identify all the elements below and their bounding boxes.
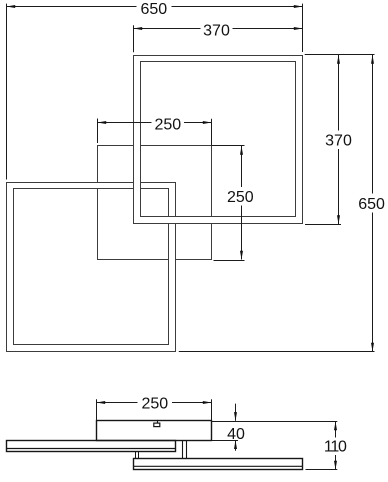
- arrowheads (side): [97, 401, 338, 470]
- ext 370v bottom: [305, 224, 341, 226]
- bottom-left square 370mm band white fill (breaks lines beneath): [7, 183, 176, 352]
- arrow 250h right: [203, 121, 212, 124]
- arrow 650v up: [371, 55, 374, 64]
- extension lines (side): [97, 399, 338, 469]
- svg-text:370: 370: [325, 133, 352, 150]
- strut A between upper and lower bars: [135, 452, 137, 459]
- middle square 250mm (plan view, bottom layer): [98, 146, 212, 260]
- ext 250v bottom: [214, 260, 245, 262]
- arrow 250v down: [240, 251, 243, 260]
- arrow 370v up: [337, 55, 340, 64]
- bottom-left square 370mm outer: [7, 183, 176, 352]
- canopy notch tick: [157, 420, 159, 423]
- canopy notch detail: [154, 423, 160, 427]
- upper bar (370 frame, side view): [7, 441, 176, 452]
- arrow 110 up: [334, 422, 337, 431]
- arrow 250s right: [203, 401, 212, 404]
- svg-text:370: 370: [203, 23, 230, 40]
- arrow 650 left: [7, 5, 16, 8]
- arrow 370v down: [337, 215, 340, 224]
- arrow 250s left: [97, 401, 106, 404]
- arrow 250h left: [98, 121, 107, 124]
- svg-text:650: 650: [140, 1, 167, 18]
- arrow 110 down: [334, 461, 337, 470]
- arrow 650 right: [294, 5, 303, 8]
- top-right square 370mm inner: [141, 62, 296, 217]
- ext 370v/650v top: [305, 54, 375, 56]
- dim line 110: [335, 422, 337, 470]
- dim line 370 top: [134, 28, 303, 30]
- svg-text:250: 250: [227, 189, 254, 206]
- extension lines (plan): [7, 4, 375, 352]
- lower bar lens line: [134, 465, 303, 467]
- top-right square 370mm outer: [134, 56, 303, 224]
- bottom-left square 370mm inner: [14, 189, 169, 345]
- ext 250h left: [97, 119, 99, 144]
- ext 250h right: [211, 119, 213, 146]
- svg-text:650: 650: [358, 196, 385, 213]
- text backgrounds (plan): [137, 1, 387, 213]
- dim line 250 horizontal: [98, 122, 212, 124]
- arrow 250v up: [240, 146, 243, 155]
- arrow 650v down: [371, 343, 374, 352]
- upper bar lens line: [7, 448, 176, 450]
- ext 370h left: [133, 25, 135, 52]
- strut B between canopy level and lower bar: [182, 441, 184, 459]
- arrowheads (plan): [7, 5, 375, 352]
- dim line 250 vertical: [241, 146, 243, 260]
- svg-text:110: 110: [324, 439, 347, 456]
- arrow 370 right: [294, 27, 303, 30]
- arrow 40 down: [234, 412, 237, 421]
- arrow 370 left: [134, 27, 143, 30]
- dim line 650 right vertical: [372, 55, 374, 352]
- text backgrounds (side): [138, 395, 347, 455]
- dim line 40 upper tail: [235, 404, 237, 421]
- arrow 40 up: [234, 440, 237, 449]
- dimension lines (plan): [7, 7, 373, 352]
- svg-text:250: 250: [154, 117, 181, 134]
- ext 650h/370h right: [302, 4, 304, 52]
- lower bar (370 frame, side view): [134, 459, 303, 470]
- dim line 250 side: [97, 402, 212, 404]
- top-right square 370mm band white fill (breaks lines beneath): [134, 56, 303, 224]
- ext 650v bottom: [179, 351, 375, 353]
- ext 250s left: [96, 399, 98, 420]
- ext 110 bottom: [306, 469, 338, 471]
- ext 40 bottom: [212, 440, 239, 442]
- dim line 650 top: [7, 6, 303, 8]
- ext 650h left: [6, 4, 8, 180]
- ext canopy top to 110: [212, 421, 338, 423]
- dim line 40 lower tail: [235, 440, 237, 451]
- ext 250s right: [211, 399, 213, 420]
- canopy box 250mm (side view): [97, 421, 212, 441]
- dim line 370 right vertical: [338, 55, 340, 224]
- dimension lines (side): [97, 403, 336, 470]
- svg-text:250: 250: [141, 395, 168, 412]
- svg-text:40: 40: [227, 426, 245, 443]
- ext 250v top: [212, 145, 245, 147]
